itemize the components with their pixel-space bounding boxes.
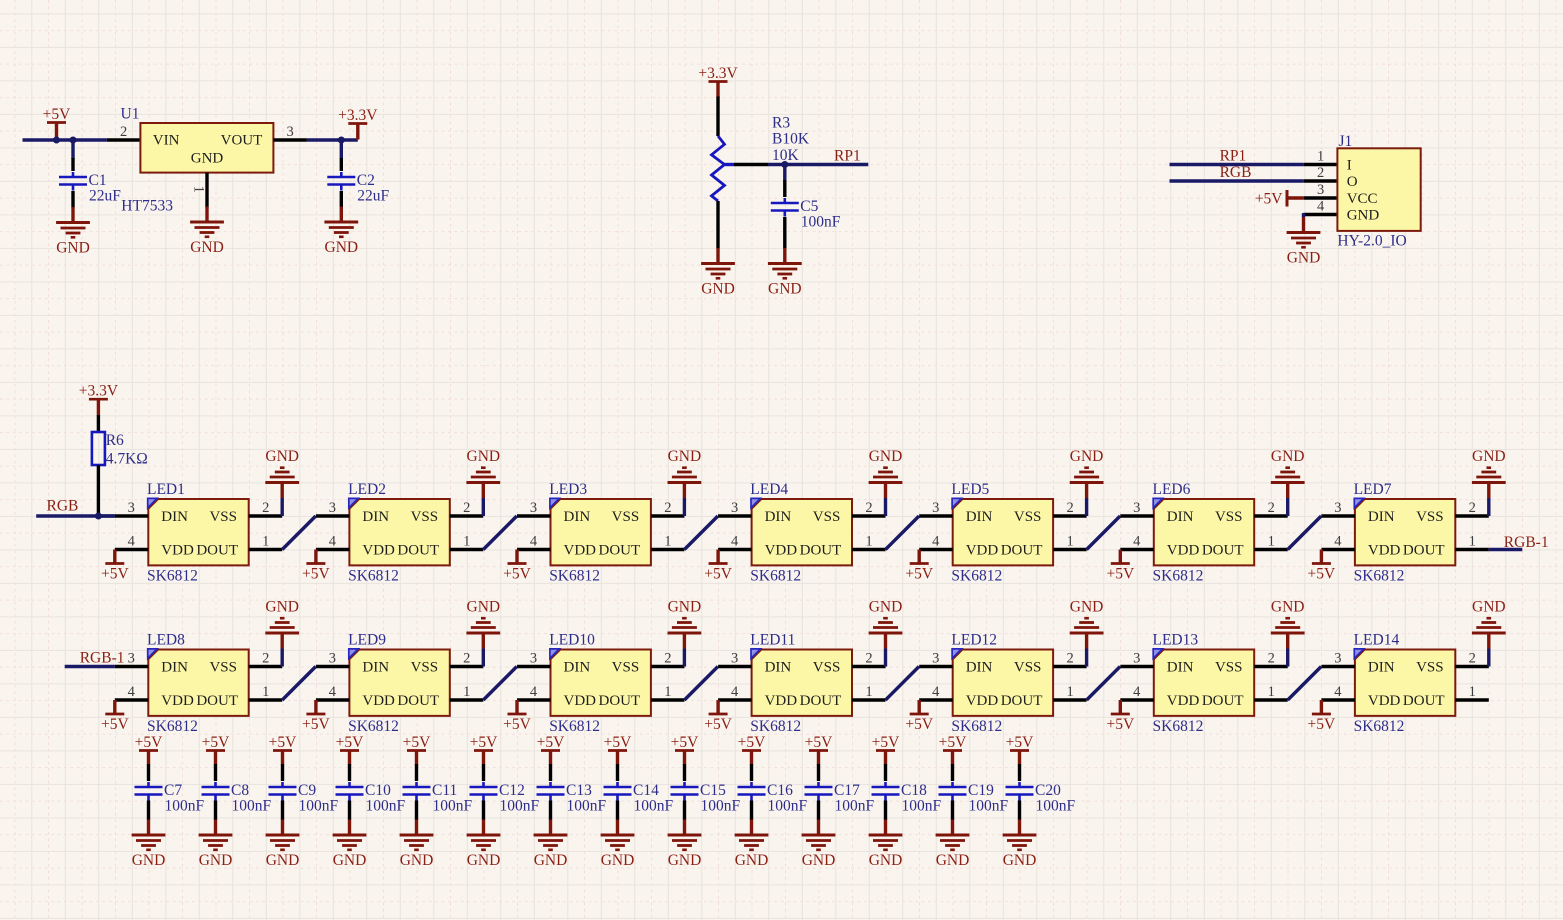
pin 1 (DOUT) — [1254, 548, 1288, 551]
svg-text:+5V: +5V — [1308, 716, 1336, 733]
designator LED2 — [348, 481, 386, 498]
junction — [338, 137, 345, 144]
svg-text:1: 1 — [1066, 684, 1073, 700]
svg-text:SK6812: SK6812 — [1354, 718, 1405, 735]
svg-text:GND: GND — [701, 281, 735, 298]
pin 3 (DIN) — [115, 665, 149, 668]
svg-text:2: 2 — [262, 500, 269, 516]
pin number 4 — [329, 534, 337, 550]
svg-text:4: 4 — [731, 684, 739, 700]
svg-text:3: 3 — [932, 651, 939, 667]
pin number 1 — [1268, 534, 1275, 550]
junction — [781, 161, 788, 168]
value HT7533 — [121, 198, 173, 215]
capacitor C17 — [805, 764, 833, 820]
pin number 1 — [865, 684, 872, 700]
svg-text:LED14: LED14 — [1354, 632, 1400, 649]
svg-text:GND: GND — [1070, 448, 1104, 465]
svg-text:+5V: +5V — [1106, 566, 1134, 583]
svg-text:GND: GND — [869, 599, 903, 616]
pin number 2 — [1066, 500, 1073, 516]
capacitor C1 labels — [89, 172, 122, 205]
svg-text:DOUT: DOUT — [1202, 543, 1244, 559]
svg-text:C5: C5 — [800, 198, 818, 215]
svg-text:1: 1 — [865, 684, 872, 700]
pin number 3 — [530, 500, 537, 516]
ground — [265, 448, 299, 498]
designator U1 — [121, 106, 140, 123]
capacitor C11 labels — [432, 782, 473, 815]
capacitor C11 — [403, 764, 431, 820]
svg-text:SK6812: SK6812 — [147, 718, 198, 735]
svg-text:GND: GND — [1070, 599, 1104, 616]
svg-text:DIN: DIN — [1167, 660, 1194, 676]
svg-text:C8: C8 — [231, 782, 249, 799]
pin 4 (VDD) — [1120, 698, 1154, 701]
value SK6812 — [750, 567, 801, 584]
svg-text:VDD: VDD — [1368, 693, 1401, 709]
pin number 4 — [731, 684, 739, 700]
pin 4 (VDD) — [919, 548, 953, 551]
svg-text:1: 1 — [463, 684, 470, 700]
svg-text:1: 1 — [1317, 149, 1324, 165]
svg-text:2: 2 — [865, 500, 872, 516]
svg-text:C10: C10 — [365, 782, 391, 799]
capacitor C10 labels — [365, 782, 406, 815]
svg-text:DOUT: DOUT — [1403, 543, 1445, 559]
svg-text:+5V: +5V — [503, 716, 531, 733]
net label RGB — [1220, 164, 1252, 181]
svg-text:4: 4 — [1133, 684, 1141, 700]
net label RP1 — [834, 148, 861, 165]
svg-text:HT7533: HT7533 — [121, 198, 173, 215]
pin 4 (VDD) — [1120, 548, 1154, 551]
svg-text:1: 1 — [1066, 534, 1073, 550]
pin number 1 — [664, 534, 671, 550]
wire — [71, 140, 74, 159]
svg-text:DOUT: DOUT — [397, 693, 439, 709]
svg-text:100nF: 100nF — [165, 798, 205, 815]
wire (diagonal) — [886, 516, 920, 550]
svg-text:RGB-1: RGB-1 — [1504, 534, 1549, 551]
power +5V (C15) — [671, 734, 699, 765]
pin 4 (VDD) — [517, 698, 551, 701]
svg-text:1: 1 — [664, 684, 671, 700]
svg-text:100nF: 100nF — [634, 798, 674, 815]
svg-text:LED13: LED13 — [1153, 632, 1199, 649]
capacitor C12 labels — [499, 782, 540, 815]
svg-text:+3.3V: +3.3V — [698, 65, 738, 82]
power +5V (C16) — [738, 734, 766, 765]
power +5V (C11) — [403, 734, 431, 765]
svg-text:1: 1 — [191, 186, 207, 193]
svg-text:LED10: LED10 — [549, 632, 595, 649]
svg-text:1: 1 — [1268, 534, 1275, 550]
svg-text:+5V: +5V — [1255, 191, 1283, 208]
designator LED14 — [1354, 632, 1400, 649]
svg-text:+5V: +5V — [503, 566, 531, 583]
svg-text:GND: GND — [325, 239, 359, 256]
pin number 3 — [329, 651, 336, 667]
pin number 4 — [932, 534, 940, 550]
svg-text:2: 2 — [1268, 651, 1275, 667]
svg-text:LED2: LED2 — [348, 481, 386, 498]
svg-text:DOUT: DOUT — [599, 543, 641, 559]
capacitor C19 labels — [968, 782, 1009, 815]
wire — [1085, 649, 1088, 667]
svg-text:3: 3 — [128, 500, 135, 516]
pin 2 (VSS) — [651, 514, 685, 517]
svg-text:100nF: 100nF — [232, 798, 272, 815]
designator LED7 — [1354, 481, 1392, 498]
svg-text:+5V: +5V — [202, 734, 230, 751]
svg-text:SK6812: SK6812 — [549, 718, 600, 735]
svg-text:DIN: DIN — [564, 660, 591, 676]
svg-text:100nF: 100nF — [701, 798, 741, 815]
pin 1 (DOUT) — [651, 698, 685, 701]
power +5V — [302, 550, 330, 583]
svg-text:4: 4 — [932, 684, 940, 700]
svg-text:+5V: +5V — [704, 716, 732, 733]
pin number 1 — [664, 684, 671, 700]
svg-text:C7: C7 — [164, 782, 182, 799]
svg-text:RP1: RP1 — [834, 148, 861, 165]
pin number 4 — [530, 534, 538, 550]
led LED14 (SK6812) — [1354, 649, 1455, 716]
svg-text:+5V: +5V — [269, 734, 297, 751]
pin 2 (VSS) — [1053, 665, 1087, 668]
pin number 1 — [463, 534, 470, 550]
power +5V — [905, 550, 933, 583]
pin 4 (VDD) — [115, 698, 149, 701]
svg-text:DOUT: DOUT — [599, 693, 641, 709]
pin 1 (DOUT) — [651, 548, 685, 551]
potentiometer R3 pin 1 — [716, 97, 719, 137]
svg-text:GND: GND — [1003, 852, 1037, 869]
value 10K — [772, 147, 800, 164]
ground — [668, 599, 702, 649]
capacitor C5 labels — [800, 198, 841, 231]
pin 3 (DIN) — [1120, 514, 1154, 517]
svg-text:HY-2.0_IO: HY-2.0_IO — [1337, 233, 1406, 250]
svg-text:DIN: DIN — [1368, 660, 1395, 676]
pin number 3 — [932, 651, 939, 667]
svg-text:+5V: +5V — [43, 106, 71, 123]
designator R6 — [106, 432, 124, 449]
wire (diagonal) — [886, 667, 920, 701]
ground — [936, 820, 970, 870]
pin 4 (VDD) — [316, 548, 350, 551]
svg-text:3: 3 — [1334, 500, 1341, 516]
pin 3 (DIN) — [517, 665, 551, 668]
svg-text:2: 2 — [1317, 165, 1324, 181]
pin number 1 — [262, 534, 269, 550]
svg-text:C12: C12 — [499, 782, 525, 799]
svg-text:LED9: LED9 — [348, 632, 386, 649]
designator LED5 — [951, 481, 989, 498]
wire (diagonal) — [684, 667, 718, 701]
svg-text:+5V: +5V — [302, 566, 330, 583]
pin number 4 — [1133, 534, 1141, 550]
svg-text:VDD: VDD — [765, 543, 798, 559]
value SK6812 — [147, 567, 198, 584]
svg-text:C14: C14 — [633, 782, 659, 799]
svg-text:4: 4 — [1133, 534, 1141, 550]
wire — [482, 649, 485, 667]
capacitor C20 labels — [1035, 782, 1076, 815]
wire — [1487, 498, 1490, 516]
svg-text:GND: GND — [668, 448, 702, 465]
pin number 3 — [329, 500, 336, 516]
svg-text:2: 2 — [1268, 500, 1275, 516]
svg-text:4: 4 — [932, 534, 940, 550]
svg-text:+5V: +5V — [336, 734, 364, 751]
svg-text:GND: GND — [1347, 208, 1380, 224]
svg-text:DIN: DIN — [765, 509, 792, 525]
wire — [1085, 498, 1088, 516]
capacitor C9 labels — [298, 782, 339, 815]
wire (diagonal) — [483, 667, 517, 701]
pin 2 (VSS) — [450, 514, 484, 517]
ground — [668, 820, 702, 870]
ground — [668, 448, 702, 498]
power +5V (C8) — [202, 734, 230, 765]
svg-text:+3.3V: +3.3V — [338, 107, 378, 124]
power +5V — [101, 700, 129, 733]
svg-text:VSS: VSS — [813, 509, 841, 525]
svg-text:GND: GND — [400, 852, 434, 869]
pin 4 (VDD) — [718, 548, 752, 551]
ground — [132, 820, 166, 870]
pin 1 (DOUT) — [1053, 548, 1087, 551]
svg-text:3: 3 — [731, 500, 738, 516]
svg-text:DIN: DIN — [1167, 509, 1194, 525]
svg-text:+5V: +5V — [101, 566, 129, 583]
svg-text:GND: GND — [467, 448, 501, 465]
svg-text:GND: GND — [190, 239, 224, 256]
svg-text:GND: GND — [534, 852, 568, 869]
led LED12 (SK6812) — [952, 649, 1053, 716]
pin number 3 — [1334, 500, 1341, 516]
ground — [190, 207, 224, 257]
pin 2 (VSS) — [852, 665, 886, 668]
svg-text:C13: C13 — [566, 782, 592, 799]
svg-text:DOUT: DOUT — [1403, 693, 1445, 709]
capacitor C16 — [738, 764, 766, 820]
svg-text:VDD: VDD — [1167, 693, 1200, 709]
wire — [482, 498, 485, 516]
svg-text:RGB: RGB — [47, 498, 79, 515]
svg-text:DOUT: DOUT — [196, 693, 238, 709]
pin 2 (VSS) — [450, 665, 484, 668]
svg-text:LED7: LED7 — [1354, 481, 1392, 498]
pin 3 (DIN) — [517, 514, 551, 517]
svg-text:VSS: VSS — [209, 660, 237, 676]
pin number 3 — [1133, 651, 1140, 667]
pin 1 (DOUT) — [450, 548, 484, 551]
power +5V (C7) — [135, 734, 163, 765]
pin 4 (VDD) — [316, 698, 350, 701]
pin number 3 — [731, 500, 738, 516]
designator R3 — [772, 115, 790, 132]
pin 1 (DOUT) — [249, 698, 283, 701]
svg-text:R6: R6 — [106, 432, 124, 449]
svg-text:SK6812: SK6812 — [750, 567, 801, 584]
svg-text:C17: C17 — [834, 782, 860, 799]
pin number 4 — [731, 534, 739, 550]
power +5V (C13) — [537, 734, 565, 765]
pin 3 (DIN) — [316, 514, 350, 517]
svg-text:3: 3 — [530, 651, 537, 667]
power +5V — [503, 550, 531, 583]
value HY-2.0_IO — [1337, 233, 1406, 250]
pin 2 (VSS) — [249, 665, 283, 668]
svg-text:VSS: VSS — [813, 660, 841, 676]
power +5V — [1106, 700, 1134, 733]
pin 3 (DIN) — [115, 514, 149, 517]
capacitor C9 — [269, 764, 297, 820]
pin number 1 — [191, 186, 207, 193]
svg-text:4: 4 — [329, 534, 337, 550]
pin number 1 — [865, 534, 872, 550]
svg-text:GND: GND — [467, 599, 501, 616]
value 4.7KΩ — [106, 451, 148, 468]
svg-text:VDD: VDD — [362, 543, 395, 559]
pin 3 (DIN) — [1321, 665, 1355, 668]
wire (diagonal) — [1087, 667, 1121, 701]
led LED1 (SK6812) — [148, 498, 249, 565]
capacitor C8 labels — [231, 782, 272, 815]
svg-text:LED6: LED6 — [1153, 481, 1191, 498]
svg-text:+5V: +5V — [738, 734, 766, 751]
capacitor C7 — [135, 764, 163, 820]
svg-text:3: 3 — [128, 651, 135, 667]
svg-text:B10K: B10K — [772, 131, 810, 148]
svg-text:GND: GND — [601, 852, 635, 869]
svg-text:GND: GND — [1287, 250, 1321, 267]
designator LED4 — [750, 481, 788, 498]
ground — [1070, 448, 1104, 498]
connector J1 pin 1 — [1304, 163, 1338, 166]
pin 1 (DOUT) — [852, 698, 886, 701]
power +5V (C10) — [336, 734, 364, 765]
svg-text:1: 1 — [1469, 534, 1476, 550]
svg-text:VSS: VSS — [411, 509, 439, 525]
designator LED10 — [549, 632, 595, 649]
svg-text:C1: C1 — [89, 172, 107, 189]
svg-text:DIN: DIN — [564, 509, 591, 525]
value SK6812 — [1354, 567, 1405, 584]
svg-text:LED12: LED12 — [951, 632, 997, 649]
svg-text:3: 3 — [329, 500, 336, 516]
svg-text:100nF: 100nF — [433, 798, 473, 815]
svg-text:LED11: LED11 — [750, 632, 795, 649]
connector J1 pin 3 — [1304, 196, 1338, 199]
svg-text:C18: C18 — [901, 782, 927, 799]
designator LED1 — [147, 481, 185, 498]
power +5V — [503, 700, 531, 733]
wire RGB-1 — [65, 665, 115, 668]
pin number 2 — [120, 124, 127, 140]
capacitor C17 labels — [834, 782, 875, 815]
pin 2 (VSS) — [852, 514, 886, 517]
svg-text:1: 1 — [1469, 684, 1476, 700]
capacitor C7 labels — [164, 782, 205, 815]
svg-text:4: 4 — [1334, 534, 1342, 550]
ground — [466, 599, 500, 649]
pin 4 (VDD) — [1321, 698, 1355, 701]
capacitor C18 labels — [901, 782, 942, 815]
pin number 3 — [128, 651, 135, 667]
svg-text:DIN: DIN — [966, 660, 993, 676]
led LED6 (SK6812) — [1153, 498, 1254, 565]
wire RGB — [1170, 179, 1304, 182]
power +3.3V — [338, 107, 378, 140]
svg-text:3: 3 — [731, 651, 738, 667]
svg-text:SK6812: SK6812 — [750, 718, 801, 735]
capacitor C15 — [671, 764, 699, 820]
svg-text:GND: GND — [199, 852, 233, 869]
designator LED6 — [1153, 481, 1191, 498]
svg-text:LED4: LED4 — [750, 481, 788, 498]
power +5V — [704, 550, 732, 583]
svg-text:VSS: VSS — [1014, 509, 1042, 525]
svg-text:VDD: VDD — [966, 693, 999, 709]
wire — [1487, 649, 1490, 667]
svg-text:C9: C9 — [298, 782, 316, 799]
led LED2 (SK6812) — [349, 498, 450, 565]
wire — [281, 498, 284, 516]
led LED5 (SK6812) — [952, 498, 1053, 565]
svg-text:100nF: 100nF — [1036, 798, 1076, 815]
ground — [1287, 217, 1321, 267]
svg-text:2: 2 — [463, 651, 470, 667]
power +5V — [905, 700, 933, 733]
pin number 2 — [865, 651, 872, 667]
value SK6812 — [348, 718, 399, 735]
pin number 3 — [530, 651, 537, 667]
value SK6812 — [951, 567, 1002, 584]
value SK6812 — [1153, 567, 1204, 584]
svg-text:22uF: 22uF — [357, 188, 389, 205]
svg-text:+5V: +5V — [1308, 566, 1336, 583]
svg-text:+5V: +5V — [101, 716, 129, 733]
svg-text:100nF: 100nF — [835, 798, 875, 815]
pin number 4 — [329, 684, 337, 700]
pin 4 (VDD) — [919, 698, 953, 701]
svg-text:C20: C20 — [1035, 782, 1061, 799]
svg-text:DIN: DIN — [362, 660, 389, 676]
wire RGB — [36, 514, 115, 517]
svg-text:2: 2 — [1469, 651, 1476, 667]
svg-text:VDD: VDD — [564, 543, 597, 559]
svg-text:GND: GND — [266, 852, 300, 869]
svg-text:2: 2 — [1469, 500, 1476, 516]
pin number 2 — [664, 500, 671, 516]
svg-text:+5V: +5V — [135, 734, 163, 751]
wire — [683, 498, 686, 516]
connector J1 — [1337, 148, 1420, 231]
junction — [70, 137, 77, 144]
svg-text:VSS: VSS — [612, 509, 640, 525]
svg-text:VDD: VDD — [161, 543, 194, 559]
capacitor C16 labels — [767, 782, 808, 815]
svg-text:DIN: DIN — [161, 509, 188, 525]
pin 2 (VSS) — [1254, 665, 1288, 668]
svg-text:VSS: VSS — [1416, 660, 1444, 676]
wire — [307, 138, 358, 141]
power +5V — [302, 700, 330, 733]
